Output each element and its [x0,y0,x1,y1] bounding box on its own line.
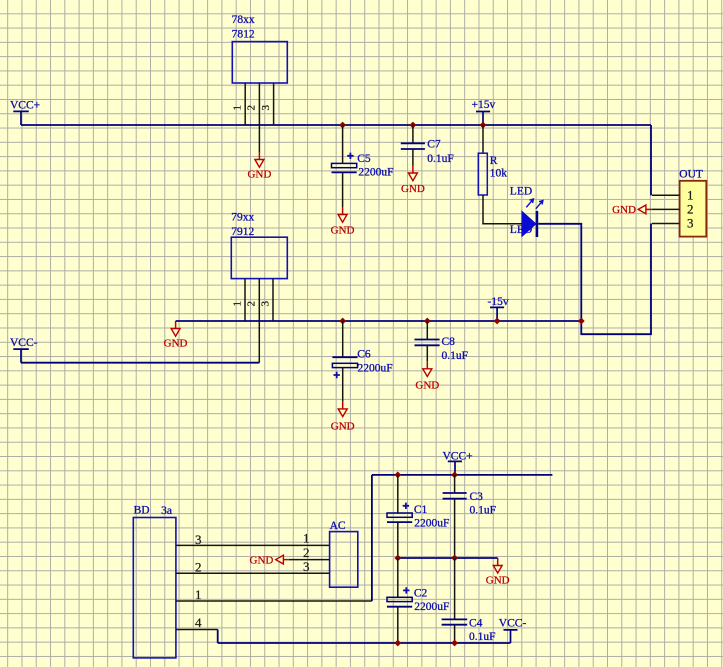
svg-text:79xx: 79xx [231,212,254,224]
svg-text:7812: 7812 [232,29,255,41]
capacitor C7 0.1uF [401,125,454,166]
node junction C1/C2 mid rail [394,555,401,562]
svg-text:GND: GND [612,204,636,216]
LED diode symbol [522,199,543,237]
connector OUT [679,169,706,237]
power port VCC+ (top left) [10,99,40,125]
svg-text:OUT: OUT [679,169,703,181]
79xx pin 2 [246,279,260,363]
wire bottom rail [218,642,511,644]
svg-text:GND: GND [250,554,274,566]
power port VCC- (bottom) [499,618,527,643]
svg-text:C8: C8 [442,336,456,348]
ground GND left end of -15 rail [164,321,188,350]
capacitor C3 0.1uF [443,475,496,558]
svg-text:4: 4 [195,615,202,630]
wire rail to OUT pin 1 [650,125,652,195]
svg-text:2: 2 [246,301,258,307]
wire top rail (bottom section) [372,474,553,476]
node junction C7/+V rail [410,122,417,129]
svg-text:10k: 10k [490,167,508,179]
svg-text:VCC+: VCC+ [10,99,40,111]
svg-text:GND: GND [331,225,355,237]
wire -15 rail [176,320,582,322]
svg-text:C4: C4 [469,618,483,630]
svg-text:3: 3 [195,532,202,547]
svg-text:C1: C1 [414,504,428,516]
BD pin 4 [176,615,218,630]
svg-text:C2: C2 [414,588,428,600]
wire R to LED anode [483,195,522,224]
wire BD pin1 up to top rail [371,475,373,601]
wire LED cathode right and down to -15 rail [538,224,651,335]
svg-text:1: 1 [687,187,694,202]
node junction C5/+V rail [339,122,346,129]
svg-text:0.1uF: 0.1uF [470,504,497,516]
svg-text:2: 2 [303,545,310,560]
svg-text:BD: BD [134,505,150,517]
node junction C3/C4 mid rail [451,555,458,562]
svg-text:-15v: -15v [488,296,509,308]
OUT pin 3 [652,223,680,225]
svg-text:1: 1 [232,105,244,111]
wire mid rail [398,557,498,559]
svg-text:AC: AC [330,520,346,532]
svg-text:R: R [490,155,498,167]
svg-text:3: 3 [259,301,271,307]
node junction -15v port [494,318,501,325]
ground GND under 78xx pin 2 [247,152,271,181]
svg-text:3a: 3a [161,505,172,517]
ground GND under C8 [415,361,439,391]
78xx pin 2 [246,83,260,152]
BD pin 1 [176,587,372,602]
ground GND arrow on OUT pin 2 [612,204,652,216]
78xx pin 1 [232,83,246,125]
svg-text:1: 1 [231,301,243,307]
svg-text:2: 2 [195,560,202,575]
svg-text:0.1uF: 0.1uF [427,153,454,165]
ground GND under C7 [401,166,425,196]
svg-text:1: 1 [195,587,202,602]
regulator 79xx 7912 [231,212,287,279]
AC pin 2 [289,545,330,560]
79xx pin 1 [231,279,245,321]
node junction C8 / -15 rail [424,318,431,325]
svg-text:3: 3 [687,216,694,231]
capacitor C4 0.1uF [442,558,496,643]
node junction C4 / bottom rail [451,640,458,647]
regulator 78xx 7812 [232,14,288,83]
svg-text:GND: GND [415,379,439,391]
bridge rectifier BD 3a [133,505,176,658]
power port +15v [472,99,496,125]
capacitor C1 2200uF [387,475,449,558]
svg-text:GND: GND [331,421,355,433]
ground GND under C6 [331,401,355,432]
svg-text:C6: C6 [357,349,371,361]
svg-text:C7: C7 [427,139,441,151]
ground GND arrow on AC pin 2 [250,554,289,566]
wire +15v dot down to R [482,125,484,153]
svg-text:+15v: +15v [472,99,496,111]
capacitor C6 2200uF [332,321,392,401]
wire +V rail [21,124,651,126]
svg-text:VCC+: VCC+ [443,450,473,462]
svg-text:2200uF: 2200uF [414,518,449,530]
svg-text:GND: GND [247,169,271,181]
svg-text:3: 3 [260,105,272,111]
wire BD pin4 down to bottom rail [217,630,219,644]
resistor R 10k [478,153,507,195]
svg-text:2200uF: 2200uF [358,362,393,374]
svg-text:2: 2 [246,105,258,111]
node junction C2 / bottom rail [394,640,401,647]
connector AC [330,520,358,587]
wire VCC- to 79xx pin 2 [21,362,259,364]
svg-text:2200uF: 2200uF [358,166,393,178]
node junction C3 / top rail [451,472,458,479]
78xx pin 3 [260,83,274,125]
svg-text:0.1uF: 0.1uF [469,631,496,643]
svg-text:2200uF: 2200uF [414,601,449,613]
power port VCC- (left) [10,337,38,363]
power port -15v [488,296,509,321]
svg-text:78xx: 78xx [232,14,255,26]
svg-text:LED: LED [510,186,532,198]
capacitor C5 2200uF [332,125,394,207]
node junction C6 / -15 rail [339,318,346,325]
node junction +15v rail / R [480,122,487,129]
OUT pin 2 [652,208,680,210]
OUT pin 1 [652,194,680,196]
svg-text:2: 2 [687,201,694,216]
BD pin 2 [176,560,330,575]
svg-text:C3: C3 [470,491,484,503]
svg-text:GND: GND [486,575,510,587]
power port VCC+ (bottom) [443,450,473,475]
svg-text:7912: 7912 [231,226,254,238]
svg-text:C5: C5 [357,153,371,165]
svg-text:VCC-: VCC- [499,618,527,630]
capacitor C2 2200uF [387,558,449,643]
svg-text:3: 3 [303,559,310,574]
ground GND under C5 [331,207,355,237]
svg-text:GND: GND [164,338,188,350]
svg-text:GND: GND [401,183,425,195]
svg-text:1: 1 [303,531,310,546]
svg-text:VCC-: VCC- [10,337,38,349]
79xx pin 3 [259,279,273,321]
node junction C1 / top rail [394,472,401,479]
ground GND mid rail [486,558,510,587]
svg-text:0.1uF: 0.1uF [442,350,469,362]
node junction LED branch / -15 rail [578,318,585,325]
capacitor C8 0.1uF [415,321,469,362]
BD pin 3 [176,532,330,547]
